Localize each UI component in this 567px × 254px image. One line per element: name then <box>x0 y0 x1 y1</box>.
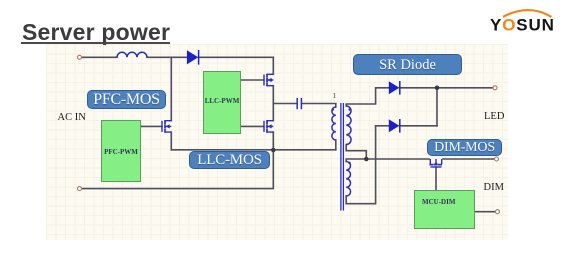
svg-text:1: 1 <box>333 92 337 100</box>
